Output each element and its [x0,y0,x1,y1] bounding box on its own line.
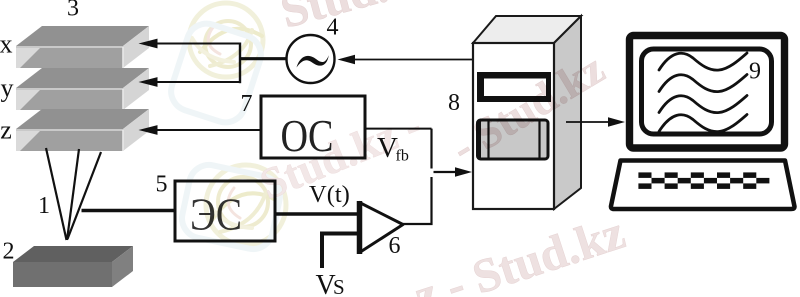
svg-text:z: z [0,116,12,145]
pale blue rounded square top [166,18,266,127]
generator circle U4 [287,35,335,83]
svg-text:y: y [1,74,14,103]
lower drive slot [478,120,549,159]
logo swirl near ЭС [206,165,286,245]
wire: Vs input [322,234,358,269]
probe tip lines (cantilever, item 1) [46,148,67,240]
sample box 2 [13,246,133,287]
svg-text:9: 9 [749,59,761,85]
wire: amplifier output / feedback vertical [403,177,432,224]
svg-text:1: 1 [38,193,50,219]
svg-text:x: x [0,30,13,59]
watermarks [166,0,631,297]
pale blue rounded square near ЭС [178,161,283,253]
wire: bracket vertical [239,43,241,84]
wire: bracket to generator circle [240,57,287,60]
waves on screen [659,53,747,132]
wire: OC arrow to plate z [150,129,261,131]
amplifier triangle 6 [360,203,404,253]
op block OC (7) [261,96,365,158]
piezo plate y [16,68,149,110]
svg-text:3: 3 [67,0,79,22]
wire: tower to laptop arrow [566,121,610,123]
svg-text:8: 8 [448,90,460,116]
computer tower 8 [473,16,581,209]
svg-text:6: 6 [389,233,401,259]
screen inner frame [642,49,772,134]
upper drive slot [477,72,551,102]
logo swirl top [189,3,263,77]
svg-text:5: 5 [156,172,168,198]
keyboard base [611,161,795,210]
laptop 9 [611,36,795,210]
wire: probe to ЭС [82,209,176,213]
wire: arrow to plate x [150,43,240,45]
svg-text:S: S [333,275,345,297]
block ЭС (5) [175,181,275,241]
screen outer frame [630,36,785,149]
svg-text:2: 2 [3,239,15,265]
sine symbol [297,55,329,67]
wire: tower to circle with arrow [350,59,473,61]
wire: OC to feedback node [365,128,432,130]
wire: arrow to plate y [150,81,240,83]
piezo plate z [16,109,149,151]
wire: arrow into tower [434,171,459,173]
piezo plate x (top plate of scanner stack) [16,26,149,68]
wire: ЭС to amplifier V(t) [275,212,359,216]
keyboard checker pattern [638,172,769,189]
